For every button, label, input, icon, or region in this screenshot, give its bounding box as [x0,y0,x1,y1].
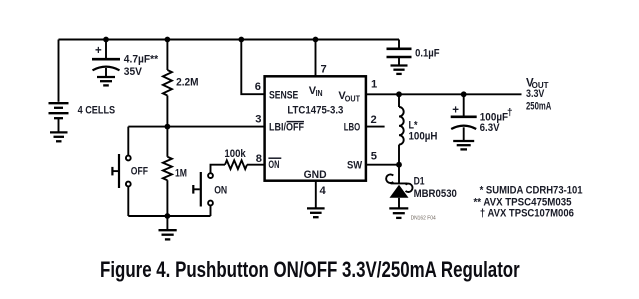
svg-text:OUT: OUT [345,94,360,103]
wire D1 cathode lead [398,165,400,184]
wire ON switch top lead to 100k [211,165,226,174]
svg-text:5: 5 [371,151,377,163]
capacitor C2 0.1uF [387,49,412,65]
svg-text:** AVX TPSC475M035: ** AVX TPSC475M035 [474,196,572,208]
wire bottom rail [128,215,210,217]
node junction bottom rail / ground [165,213,171,219]
wire pin 4 GND stub [315,181,317,209]
capacitor C3 100uF 6.3V polarized [451,117,477,141]
wire R3 to pin 8 [247,164,265,166]
wire pin 6 SENSE to rail [241,40,264,95]
wire 0.1uF top lead [398,40,400,48]
wire OFF switch top lead [127,127,129,156]
svg-text:SW: SW [347,160,363,172]
svg-text:6.3V: 6.3V [480,122,501,134]
node junction rail / pin6 [238,37,244,43]
svg-text:6: 6 [255,81,261,93]
capacitor C1 4.7uF 35V polarized [92,59,120,76]
diode D1 MBR0530 schottky [386,174,412,208]
wire pin 2 LBO stub [366,126,385,128]
svg-text:LBI/OFF: LBI/OFF [269,122,304,134]
svg-text:4.7µF**: 4.7µF** [124,54,159,66]
wire VOUT rail pin 1 [366,93,522,95]
node junction LBI / R1 / R2 [165,124,171,130]
node junction VOUT / C3 [461,91,467,97]
resistor R1 2.2M [163,70,172,96]
svg-text:LBO: LBO [344,122,361,134]
svg-text:† AVX TPSC107M006: † AVX TPSC107M006 [480,208,574,220]
node junction rail / pin7 [313,37,319,43]
svg-text:250mA: 250mA [526,101,551,113]
wire top supply rail [59,39,400,41]
svg-text:ON: ON [214,184,227,196]
ground under C2 [391,66,408,74]
svg-text:SENSE: SENSE [269,90,298,102]
node junction VOUT / L1 [396,91,402,97]
node junction top rail / R1 [165,37,171,43]
wire pin 7 VIN stub [315,40,317,77]
wire R2 bottom lead [166,180,168,216]
svg-text:* SUMIDA CDRH73-101: * SUMIDA CDRH73-101 [480,185,583,197]
svg-text:2.2M: 2.2M [176,77,198,89]
svg-text:3.3V: 3.3V [526,88,545,100]
svg-text:100k: 100k [224,148,246,160]
svg-text:8: 8 [256,153,262,165]
wire ON switch bottom lead [210,205,212,216]
svg-text:1: 1 [371,79,377,91]
svg-text:7: 7 [321,64,327,76]
svg-text:D1: D1 [414,176,425,188]
ground under battery [50,132,68,141]
pushbutton OFF switch [112,154,130,188]
svg-text:MBR0530: MBR0530 [414,188,457,200]
wire R1 top lead [166,40,168,71]
svg-text:3: 3 [255,113,261,125]
ground under C3 [453,141,474,149]
wire pin 5 SW stub [366,164,399,166]
op-amp U1 LTC1475-3.3 body [265,76,366,180]
svg-text:Figure 4. Pushbutton ON/OFF 3.: Figure 4. Pushbutton ON/OFF 3.3V/250mA R… [100,257,520,282]
wire C3 top lead [463,94,465,115]
ground at pin 4 [307,208,325,217]
svg-text:4: 4 [320,185,327,197]
wire R2 top lead [166,127,168,157]
svg-text:35V: 35V [124,66,143,78]
svg-text:1M: 1M [175,168,187,180]
svg-text:2: 2 [371,114,377,126]
svg-text:LTC1475-3.3: LTC1475-3.3 [287,104,343,116]
resistor R2 1M [163,157,172,180]
resistor R3 100k [225,160,247,169]
svg-text:GND: GND [304,169,327,181]
svg-text:4 CELLS: 4 CELLS [78,105,116,117]
node junction top rail / C1 [103,37,109,43]
svg-text:OFF: OFF [131,165,148,177]
ground at bottom rail [159,216,177,239]
svg-text:IN: IN [316,89,323,98]
svg-text:DN162 F04: DN162 F04 [411,216,436,222]
svg-text:+: + [452,104,459,116]
battery BT1 4 CELLS [49,103,69,132]
wire LBI node horizontal [128,126,264,128]
pushbutton ON switch [193,172,213,207]
wire battery branch [58,40,60,102]
ground under C1 [97,77,115,85]
inductor L1 100uH [399,94,404,164]
wire R1 bottom lead [166,96,168,127]
node junction SW / L1 / D1 [396,162,402,168]
svg-text:ON: ON [268,159,279,171]
ground under D1 [389,208,408,218]
svg-text:+: + [95,45,102,57]
svg-text:100µH: 100µH [409,130,438,142]
svg-text:†: † [507,108,513,119]
wire OFF switch bottom lead [127,186,129,216]
wire C1 top lead [105,40,107,59]
svg-text:0.1µF: 0.1µF [415,48,440,60]
